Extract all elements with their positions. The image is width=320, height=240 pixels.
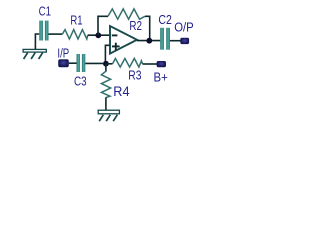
capacitor C1 (39, 21, 43, 41)
capacitor C3 (77, 54, 80, 72)
node (non-inverting junction) (103, 61, 109, 67)
wire (feedback right, down to output node) (145, 16, 150, 40)
node (output junction) (146, 38, 152, 44)
wire (I/P to C3) (69, 62, 77, 64)
wire (R3 to B+) (143, 63, 158, 65)
svg-text:O/P: O/P (174, 19, 194, 34)
node (inverting input junction) (95, 32, 101, 38)
svg-text:C3: C3 (74, 74, 87, 89)
resistor R2 (108, 9, 145, 19)
svg-text:C1: C1 (39, 4, 51, 19)
wire (C3 to non-inverting junction) (85, 62, 103, 64)
wire (op-amp output to C2) (137, 40, 160, 42)
wire (R4 to GND2) (105, 97, 107, 110)
op-amp U1 (110, 26, 137, 54)
svg-text:I/P: I/P (57, 45, 69, 60)
terminal O/P (180, 38, 189, 44)
wire (non-inverting input L) (105, 45, 109, 61)
ground GND2 (under R4) (98, 110, 119, 121)
svg-text:R3: R3 (128, 67, 141, 82)
svg-text:R4: R4 (113, 83, 129, 99)
terminal I/P (58, 59, 69, 67)
wire (GND1 riser to C1) (35, 34, 39, 49)
svg-text:R1: R1 (70, 13, 82, 28)
svg-text:B+: B+ (154, 70, 168, 85)
resistor R1 (62, 30, 88, 39)
capacitor C2 (160, 28, 164, 50)
wire (junction down to R4) (105, 64, 107, 72)
wire (R1 to inverting input) (88, 34, 110, 36)
ground GND1 (left, under C1) (23, 49, 46, 59)
wire (C2 to O/P terminal) (170, 40, 181, 42)
svg-text:R2: R2 (129, 18, 142, 33)
wire (C1 to R1) (49, 33, 63, 35)
resistor R3 (113, 58, 143, 67)
resistor R4 (101, 71, 110, 97)
wire (junction to R3) (106, 63, 113, 65)
terminal B+ (157, 61, 166, 67)
svg-text:C2: C2 (158, 12, 172, 27)
wire (feedback left riser) (98, 16, 108, 35)
